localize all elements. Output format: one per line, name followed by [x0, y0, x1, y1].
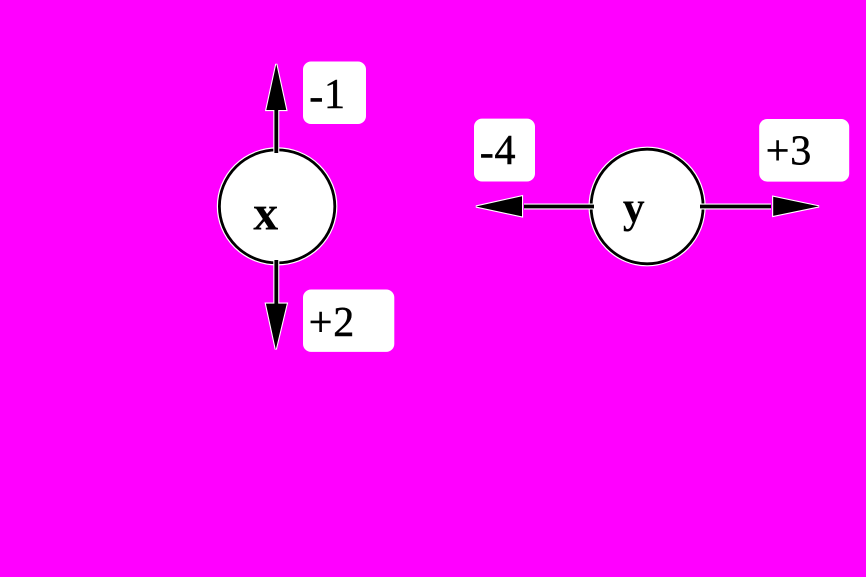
svg-text:-1: -1 [309, 72, 346, 120]
svg-text:y: y [623, 183, 645, 232]
svg-text:+2: +2 [309, 300, 355, 346]
svg-text:x: x [253, 184, 278, 240]
svg-text:+3: +3 [766, 128, 812, 174]
svg-text:-4: -4 [480, 128, 517, 176]
